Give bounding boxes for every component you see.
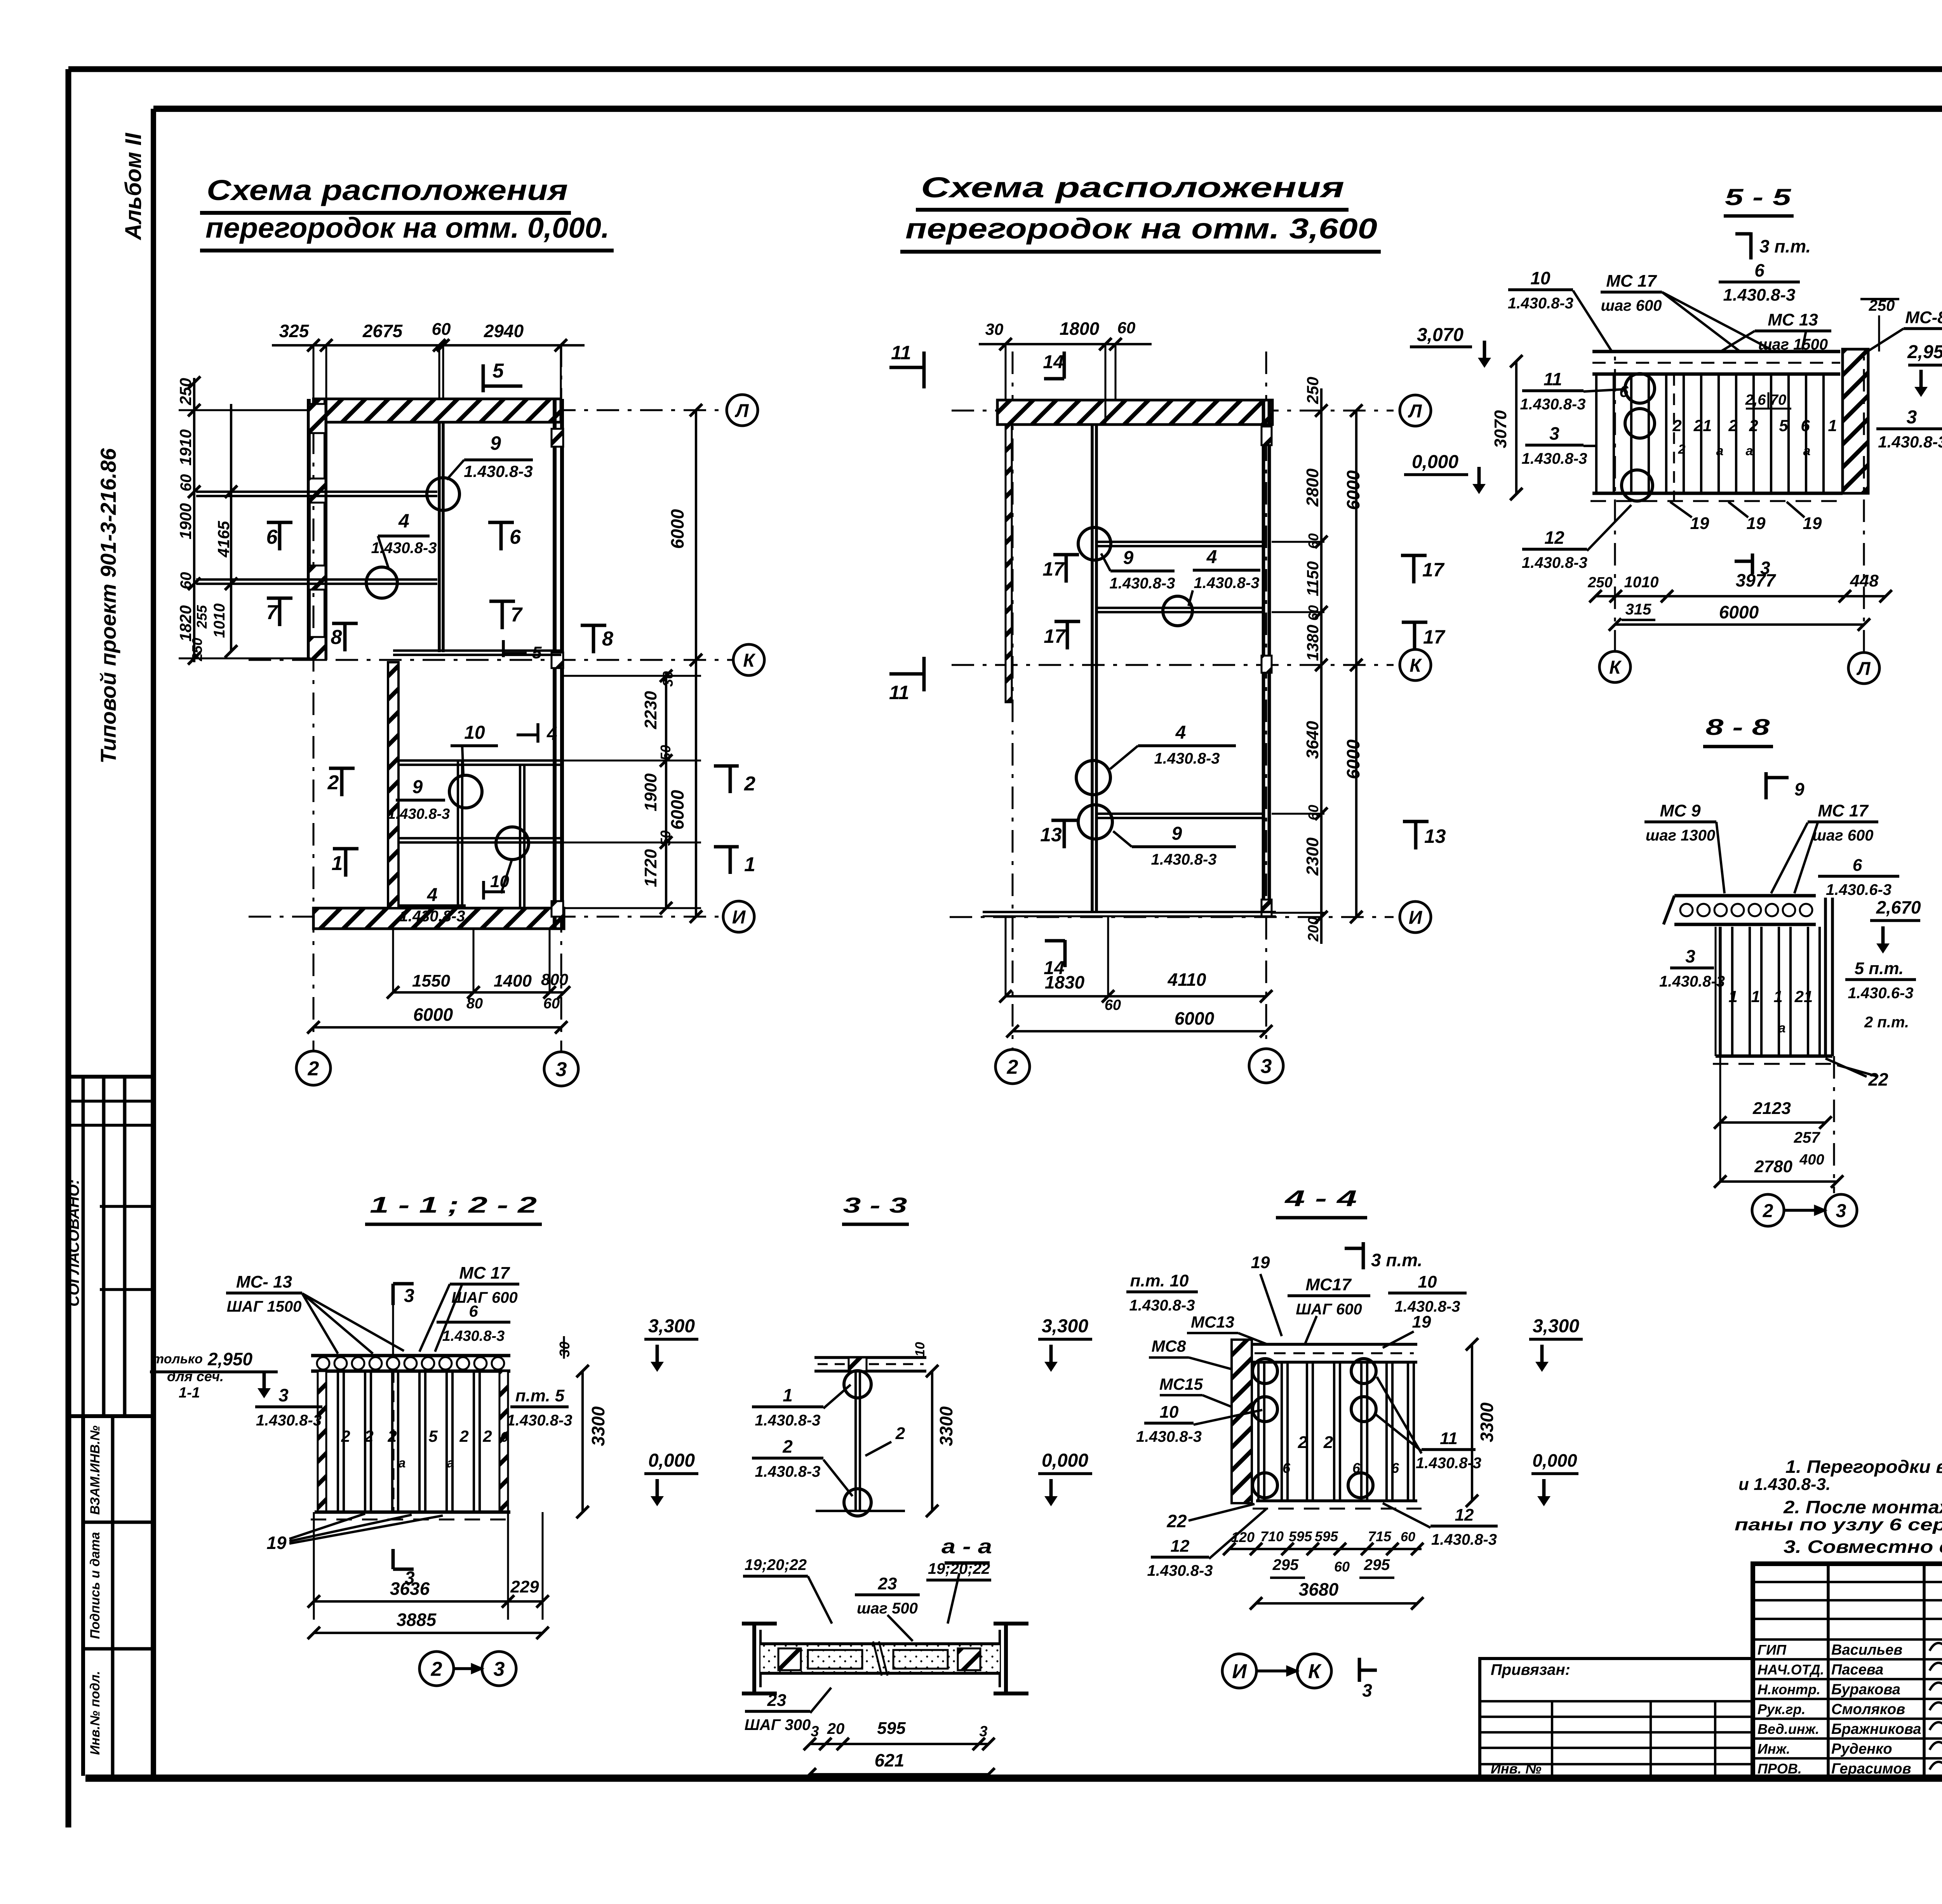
svg-text:229: 229 — [510, 1577, 539, 1596]
svg-text:шаг 500: шаг 500 — [857, 1600, 918, 1617]
svg-text:а: а — [1746, 444, 1753, 458]
svg-text:Схема расположения: Схема расположения — [921, 171, 1344, 204]
svg-text:а: а — [1716, 444, 1724, 458]
svg-text:МС15: МС15 — [1159, 1375, 1203, 1393]
svg-text:1.430.8-3: 1.430.8-3 — [755, 1463, 820, 1480]
svg-text:19;20;22: 19;20;22 — [745, 1556, 807, 1573]
svg-text:5: 5 — [532, 643, 542, 662]
svg-text:Привязан:: Привязан: — [1491, 1661, 1570, 1678]
svg-text:3885: 3885 — [397, 1610, 437, 1630]
svg-text:9: 9 — [1172, 823, 1182, 844]
svg-text:2: 2 — [387, 1427, 397, 1445]
svg-text:21: 21 — [1693, 416, 1712, 435]
svg-text:1-1: 1-1 — [179, 1385, 200, 1401]
svg-text:паны по узлу 6 серии 1.4: паны по узлу 6 серии 1.430.8-3. — [1735, 1515, 1942, 1534]
svg-text:3300: 3300 — [588, 1406, 608, 1446]
svg-text:МС 17: МС 17 — [459, 1264, 510, 1283]
svg-text:30: 30 — [660, 671, 676, 687]
svg-text:и 1.430.8-3.: и 1.430.8-3. — [1738, 1475, 1831, 1494]
svg-text:60: 60 — [1117, 318, 1136, 337]
svg-text:60: 60 — [1305, 805, 1321, 820]
svg-text:а: а — [1803, 444, 1811, 458]
svg-text:2300: 2300 — [1303, 837, 1322, 876]
svg-text:4: 4 — [546, 724, 557, 744]
svg-text:перегородок на отм. 3,6: перегородок на отм. 3,600 — [905, 212, 1377, 245]
svg-text:Инж.: Инж. — [1758, 1741, 1790, 1757]
svg-text:60: 60 — [1334, 1559, 1350, 1575]
svg-text:3,070: 3,070 — [1417, 325, 1463, 345]
svg-text:1.430.8-3: 1.430.8-3 — [1136, 1428, 1202, 1445]
svg-text:23: 23 — [878, 1574, 897, 1593]
svg-text:а: а — [447, 1456, 454, 1471]
svg-text:5: 5 — [492, 360, 504, 382]
svg-text:2: 2 — [327, 771, 339, 794]
svg-text:14: 14 — [1043, 352, 1063, 372]
svg-text:4: 4 — [1206, 547, 1217, 567]
svg-text:10: 10 — [913, 1342, 927, 1357]
svg-text:6: 6 — [266, 526, 278, 548]
svg-text:9: 9 — [490, 432, 501, 454]
svg-text:2780: 2780 — [1754, 1157, 1792, 1176]
svg-text:13: 13 — [1040, 824, 1062, 846]
svg-text:23: 23 — [767, 1691, 787, 1710]
svg-text:8: 8 — [331, 626, 342, 649]
svg-text:6000: 6000 — [1719, 602, 1759, 622]
svg-text:Васильев: Васильев — [1831, 1642, 1902, 1658]
svg-text:Л: Л — [1408, 401, 1422, 421]
svg-text:4165: 4165 — [214, 521, 233, 558]
svg-text:1.430.8-3: 1.430.8-3 — [1147, 1562, 1213, 1579]
svg-text:1800: 1800 — [1060, 318, 1100, 339]
svg-text:1.430.6-3: 1.430.6-3 — [1826, 881, 1892, 898]
svg-text:50: 50 — [658, 830, 673, 846]
svg-text:3: 3 — [404, 1286, 414, 1306]
svg-text:6000: 6000 — [413, 1004, 453, 1025]
svg-text:8 - 8: 8 - 8 — [1706, 715, 1770, 740]
svg-text:1: 1 — [1728, 987, 1737, 1006]
svg-text:200: 200 — [1305, 917, 1322, 942]
svg-text:1.430.8-3: 1.430.8-3 — [1109, 575, 1175, 592]
svg-text:250: 250 — [1303, 377, 1322, 404]
svg-text:1.430.8-3: 1.430.8-3 — [1129, 1297, 1195, 1314]
svg-text:2: 2 — [1007, 1056, 1018, 1079]
svg-text:295: 295 — [1272, 1556, 1299, 1573]
svg-text:3,300: 3,300 — [648, 1316, 695, 1337]
svg-text:255: 255 — [194, 605, 210, 629]
svg-text:80: 80 — [466, 996, 483, 1012]
svg-text:Бражникова: Бражникова — [1831, 1721, 1921, 1737]
svg-text:11: 11 — [889, 682, 909, 703]
svg-text:1.430.8-3: 1.430.8-3 — [1431, 1531, 1497, 1548]
svg-text:6: 6 — [510, 526, 521, 548]
svg-text:2: 2 — [482, 1427, 492, 1445]
svg-text:21: 21 — [1794, 987, 1813, 1006]
svg-text:595: 595 — [1289, 1528, 1312, 1544]
svg-text:1.430.8-3: 1.430.8-3 — [399, 908, 465, 925]
svg-text:1: 1 — [783, 1385, 793, 1405]
svg-text:3: 3 — [1362, 1680, 1372, 1700]
svg-text:19: 19 — [1412, 1312, 1431, 1331]
svg-text:12: 12 — [1171, 1537, 1190, 1556]
svg-text:10: 10 — [1160, 1403, 1179, 1422]
svg-text:2: 2 — [1323, 1433, 1333, 1452]
svg-text:К: К — [1410, 655, 1422, 676]
svg-text:0,000: 0,000 — [648, 1450, 695, 1471]
svg-text:11: 11 — [1544, 369, 1562, 389]
svg-text:К: К — [1609, 657, 1622, 678]
svg-text:12: 12 — [1455, 1505, 1474, 1525]
svg-text:17: 17 — [1423, 626, 1446, 648]
svg-text:0,000: 0,000 — [1532, 1450, 1577, 1471]
svg-text:1: 1 — [332, 852, 343, 875]
svg-text:3. Совместно с данным листо: 3. Совместно с данным листом см. лист КШ… — [1784, 1537, 1942, 1557]
svg-text:2: 2 — [1749, 416, 1758, 435]
svg-text:п.т. 10: п.т. 10 — [1130, 1271, 1189, 1290]
svg-text:ШАГ 600: ШАГ 600 — [451, 1289, 517, 1306]
svg-text:8: 8 — [602, 628, 613, 650]
svg-text:17: 17 — [1042, 558, 1065, 580]
svg-text:5: 5 — [428, 1427, 438, 1445]
svg-text:Типовой проект 901-3-216.86: Типовой проект 901-3-216.86 — [96, 448, 120, 764]
svg-text:Герасимов: Герасимов — [1831, 1761, 1911, 1777]
svg-text:3070: 3070 — [1491, 410, 1510, 448]
svg-text:2940: 2940 — [484, 321, 524, 341]
svg-text:ВЗАМ.ИНВ.№: ВЗАМ.ИНВ.№ — [88, 1425, 103, 1515]
svg-text:Л: Л — [1857, 658, 1871, 679]
svg-text:2,670: 2,670 — [1876, 897, 1921, 917]
svg-text:И: И — [1409, 907, 1423, 928]
svg-text:2. После монтажа и воздухов: 2. После монтажа и воздуховодов труб, от… — [1783, 1497, 1942, 1517]
svg-text:1.430.8-3: 1.430.8-3 — [1151, 851, 1216, 868]
svg-text:60: 60 — [1105, 997, 1121, 1013]
svg-text:12: 12 — [1544, 527, 1564, 548]
svg-text:11: 11 — [1440, 1429, 1458, 1448]
svg-text:3: 3 — [278, 1385, 289, 1405]
svg-text:3 - 3: 3 - 3 — [843, 1193, 907, 1217]
svg-text:МС8: МС8 — [1152, 1337, 1186, 1355]
svg-text:17: 17 — [1044, 625, 1066, 647]
svg-text:МС 17: МС 17 — [1606, 272, 1657, 291]
svg-text:2: 2 — [364, 1427, 373, 1445]
svg-text:1900: 1900 — [176, 503, 195, 539]
svg-text:п.т. 5: п.т. 5 — [515, 1386, 565, 1405]
svg-text:250: 250 — [1587, 574, 1612, 591]
svg-text:1.430.8-3: 1.430.8-3 — [1521, 450, 1587, 467]
svg-text:1.430.8-3: 1.430.8-3 — [506, 1412, 572, 1429]
svg-text:1: 1 — [1773, 987, 1782, 1006]
svg-text:800: 800 — [541, 970, 568, 989]
svg-text:ШАГ 600: ШАГ 600 — [1296, 1301, 1362, 1318]
svg-text:2,950: 2,950 — [1907, 342, 1942, 362]
svg-text:ПРОВ.: ПРОВ. — [1758, 1761, 1802, 1777]
svg-text:3: 3 — [1549, 423, 1559, 444]
svg-text:К: К — [743, 650, 756, 671]
svg-text:МС17: МС17 — [1305, 1275, 1352, 1294]
svg-text:1.430.8-3: 1.430.8-3 — [1194, 574, 1259, 592]
svg-text:МС13: МС13 — [1191, 1313, 1234, 1331]
svg-text:2: 2 — [308, 1058, 319, 1080]
svg-text:9: 9 — [1794, 779, 1805, 799]
svg-text:250: 250 — [176, 378, 195, 406]
svg-text:2: 2 — [895, 1424, 905, 1443]
svg-text:60: 60 — [1401, 1530, 1415, 1544]
svg-text:3,300: 3,300 — [1533, 1316, 1579, 1337]
svg-text:3 п.т.: 3 п.т. — [1371, 1250, 1422, 1270]
svg-text:3: 3 — [1836, 1201, 1846, 1221]
svg-text:1.430.8-3: 1.430.8-3 — [464, 462, 532, 480]
svg-text:1.430.8-3: 1.430.8-3 — [1878, 433, 1942, 451]
svg-text:НАЧ.ОТД.: НАЧ.ОТД. — [1758, 1662, 1824, 1678]
svg-text:Н.контр.: Н.контр. — [1758, 1681, 1820, 1697]
svg-text:2800: 2800 — [1303, 468, 1322, 507]
svg-text:только: только — [152, 1352, 203, 1366]
svg-text:3636: 3636 — [390, 1579, 430, 1599]
svg-text:5 - 5: 5 - 5 — [1725, 184, 1792, 210]
svg-text:1: 1 — [1751, 987, 1760, 1006]
svg-text:для сеч.: для сеч. — [167, 1368, 224, 1384]
svg-text:7: 7 — [511, 604, 523, 626]
svg-text:70: 70 — [1770, 392, 1786, 408]
svg-text:6: 6 — [1391, 1460, 1399, 1476]
svg-text:1.430.8-3: 1.430.8-3 — [1659, 973, 1725, 990]
svg-text:1.430.8-3: 1.430.8-3 — [1154, 750, 1220, 767]
svg-text:Инв.№ подл.: Инв.№ подл. — [88, 1671, 103, 1755]
svg-text:6: 6 — [1853, 856, 1862, 875]
svg-text:1.430.8-3: 1.430.8-3 — [1508, 295, 1573, 312]
svg-text:2: 2 — [431, 1658, 442, 1681]
svg-text:621: 621 — [875, 1750, 905, 1770]
svg-text:5: 5 — [1779, 416, 1788, 435]
svg-text:1830: 1830 — [1045, 972, 1085, 992]
svg-text:2230: 2230 — [641, 691, 660, 729]
svg-text:Буракова: Буракова — [1831, 1681, 1900, 1698]
svg-text:3: 3 — [1261, 1055, 1272, 1078]
svg-text:1.430.8-3: 1.430.8-3 — [388, 806, 450, 822]
svg-text:6: 6 — [1352, 1460, 1361, 1476]
svg-text:2: 2 — [1672, 416, 1681, 435]
svg-text:перегородок на отм. 0,: перегородок на отм. 0,000. — [205, 212, 609, 244]
svg-text:6: 6 — [1754, 260, 1765, 280]
svg-text:6000: 6000 — [667, 790, 687, 830]
svg-text:19: 19 — [266, 1533, 287, 1553]
svg-text:6: 6 — [1801, 416, 1810, 435]
svg-text:ГИП: ГИП — [1758, 1642, 1787, 1658]
svg-text:60: 60 — [543, 996, 560, 1012]
svg-text:Схема расположения: Схема расположения — [207, 174, 568, 206]
svg-text:МС- 13: МС- 13 — [236, 1272, 292, 1291]
svg-text:3977: 3977 — [1736, 570, 1777, 590]
svg-text:1.430.6-3: 1.430.6-3 — [1848, 985, 1913, 1002]
svg-text:2675: 2675 — [362, 321, 403, 341]
svg-text:1.430.8-3: 1.430.8-3 — [1520, 396, 1585, 413]
svg-text:6000: 6000 — [1343, 739, 1363, 779]
svg-text:710: 710 — [1260, 1528, 1284, 1544]
svg-text:6000: 6000 — [1343, 470, 1363, 510]
svg-text:шаг 600: шаг 600 — [1812, 827, 1873, 844]
svg-text:6000: 6000 — [1175, 1008, 1215, 1029]
svg-text:2123: 2123 — [1752, 1099, 1791, 1118]
svg-text:19: 19 — [1803, 514, 1822, 533]
svg-text:6: 6 — [469, 1302, 478, 1320]
svg-text:1.430.8-3: 1.430.8-3 — [442, 1328, 505, 1344]
svg-text:2: 2 — [459, 1427, 468, 1445]
svg-text:1010: 1010 — [211, 604, 228, 638]
svg-text:19: 19 — [1690, 514, 1709, 533]
svg-text:2: 2 — [1678, 442, 1686, 457]
svg-text:325: 325 — [279, 321, 310, 341]
svg-text:1: 1 — [744, 853, 755, 876]
svg-text:315: 315 — [1625, 601, 1651, 618]
svg-text:Смоляков: Смоляков — [1831, 1701, 1905, 1718]
svg-text:60: 60 — [1305, 605, 1321, 621]
svg-text:1: 1 — [1828, 416, 1837, 435]
svg-text:4 - 4: 4 - 4 — [1284, 1186, 1357, 1211]
svg-text:Подпись и дата: Подпись и дата — [88, 1532, 103, 1639]
svg-text:а - а: а - а — [941, 1535, 992, 1558]
svg-text:22: 22 — [1166, 1511, 1187, 1531]
svg-text:2 п.т.: 2 п.т. — [1864, 1014, 1909, 1031]
svg-text:4: 4 — [1175, 722, 1186, 743]
svg-text:60: 60 — [177, 474, 195, 492]
svg-text:10: 10 — [1530, 268, 1550, 288]
svg-text:Инв. №: Инв. № — [1491, 1761, 1542, 1777]
svg-text:1.430.8-3: 1.430.8-3 — [1723, 285, 1796, 305]
svg-text:шаг 600: шаг 600 — [1601, 297, 1662, 314]
svg-text:257: 257 — [1794, 1129, 1820, 1146]
svg-text:2,6: 2,6 — [1745, 392, 1766, 408]
svg-text:4: 4 — [427, 885, 438, 905]
svg-text:2: 2 — [1763, 1201, 1773, 1221]
svg-text:6: 6 — [1282, 1460, 1291, 1476]
svg-text:1550: 1550 — [412, 971, 450, 990]
svg-text:Руденко: Руденко — [1831, 1741, 1892, 1757]
svg-text:3300: 3300 — [1477, 1402, 1497, 1442]
svg-text:13: 13 — [1424, 825, 1446, 847]
svg-text:400: 400 — [1799, 1152, 1824, 1168]
svg-text:60: 60 — [432, 320, 451, 339]
svg-text:6000: 6000 — [667, 509, 687, 549]
svg-text:3: 3 — [556, 1058, 567, 1081]
svg-text:10: 10 — [1418, 1272, 1437, 1291]
svg-text:К: К — [1308, 1660, 1322, 1683]
svg-text:ШАГ 300: ШАГ 300 — [745, 1716, 811, 1733]
svg-text:1010: 1010 — [1624, 574, 1659, 591]
svg-text:19: 19 — [1251, 1253, 1270, 1272]
svg-text:595: 595 — [877, 1719, 906, 1738]
svg-text:1720: 1720 — [641, 849, 660, 887]
svg-text:1.430.8-3: 1.430.8-3 — [256, 1412, 322, 1429]
svg-text:715: 715 — [1368, 1528, 1392, 1544]
svg-text:595: 595 — [1315, 1528, 1338, 1544]
svg-text:3: 3 — [494, 1658, 505, 1681]
svg-text:6: 6 — [1619, 382, 1629, 400]
svg-text:МС-8: МС-8 — [1905, 308, 1942, 327]
svg-text:МС 13: МС 13 — [1768, 310, 1818, 329]
svg-text:120: 120 — [1231, 1529, 1255, 1545]
svg-text:1820: 1820 — [176, 605, 195, 641]
svg-text:4: 4 — [398, 510, 409, 532]
svg-text:МС 17: МС 17 — [1818, 801, 1869, 820]
svg-text:9: 9 — [1123, 548, 1134, 568]
svg-text:3 п.т.: 3 п.т. — [1759, 236, 1811, 256]
svg-text:9: 9 — [412, 777, 423, 797]
svg-text:2: 2 — [782, 1436, 793, 1457]
svg-text:4110: 4110 — [1168, 969, 1206, 990]
svg-text:3300: 3300 — [936, 1406, 956, 1446]
svg-text:Пасева: Пасева — [1831, 1662, 1883, 1678]
svg-text:Л: Л — [735, 400, 749, 421]
svg-text:1.430.8-3: 1.430.8-3 — [1522, 554, 1587, 571]
svg-text:СОГЛАСОВАНО:: СОГЛАСОВАНО: — [65, 1179, 82, 1307]
svg-text:2: 2 — [1728, 416, 1737, 435]
svg-text:И: И — [732, 907, 746, 928]
svg-text:50: 50 — [658, 745, 673, 761]
svg-text:Вед.инж.: Вед.инж. — [1758, 1721, 1819, 1737]
svg-text:7: 7 — [266, 601, 278, 624]
svg-text:0,000: 0,000 — [1042, 1450, 1088, 1471]
svg-text:1400: 1400 — [494, 971, 532, 990]
svg-text:И: И — [1232, 1660, 1247, 1683]
svg-text:3: 3 — [1685, 946, 1695, 966]
svg-text:а: а — [1778, 1021, 1786, 1036]
svg-text:а: а — [398, 1456, 406, 1471]
svg-text:3,300: 3,300 — [1042, 1316, 1088, 1337]
svg-text:1910: 1910 — [176, 429, 195, 465]
svg-text:2: 2 — [1298, 1433, 1308, 1452]
svg-text:ШАГ 1500: ШАГ 1500 — [227, 1298, 302, 1315]
svg-text:295: 295 — [1364, 1556, 1390, 1573]
svg-text:2,950: 2,950 — [207, 1349, 253, 1369]
svg-text:3640: 3640 — [1303, 721, 1322, 759]
svg-text:60: 60 — [1305, 533, 1321, 549]
svg-text:10: 10 — [464, 722, 485, 743]
svg-text:Рук.гр.: Рук.гр. — [1758, 1701, 1806, 1717]
svg-text:1380: 1380 — [1303, 625, 1322, 661]
svg-text:250: 250 — [189, 638, 205, 661]
svg-text:11: 11 — [891, 342, 911, 364]
svg-text:1.430.8-3: 1.430.8-3 — [755, 1412, 820, 1429]
svg-text:Альбом II: Альбом II — [121, 132, 146, 241]
svg-text:5 п.т.: 5 п.т. — [1855, 959, 1904, 978]
svg-text:3680: 3680 — [1299, 1579, 1339, 1599]
svg-text:1. Перегородки выполнять в: 1. Перегородки выполнять в соответствии … — [1785, 1457, 1942, 1477]
svg-text:20: 20 — [827, 1720, 845, 1737]
svg-text:3: 3 — [1907, 407, 1917, 428]
svg-text:19: 19 — [1747, 514, 1766, 533]
svg-text:шаг 1300: шаг 1300 — [1646, 827, 1715, 844]
svg-text:22: 22 — [1868, 1069, 1888, 1089]
svg-text:2: 2 — [341, 1427, 350, 1445]
svg-text:1150: 1150 — [1303, 561, 1322, 596]
svg-text:30: 30 — [985, 320, 1004, 338]
svg-text:0,000: 0,000 — [1412, 452, 1458, 472]
svg-text:60: 60 — [177, 572, 195, 590]
svg-text:2: 2 — [744, 773, 755, 795]
svg-text:17: 17 — [1422, 559, 1445, 581]
svg-text:МС 9: МС 9 — [1660, 801, 1701, 820]
svg-text:1 - 1 ; 2 - 2: 1 - 1 ; 2 - 2 — [370, 1192, 537, 1218]
svg-text:6: 6 — [500, 1429, 508, 1445]
svg-text:1900: 1900 — [641, 773, 660, 811]
